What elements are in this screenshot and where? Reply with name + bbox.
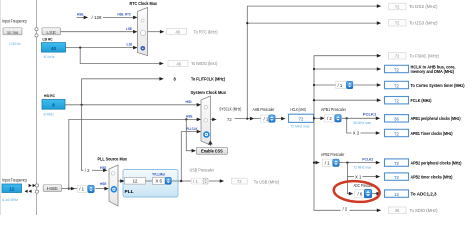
svg-text:36: 36 bbox=[395, 208, 400, 213]
svg-text:8 MHz: 8 MHz bbox=[44, 112, 55, 116]
wire SYSCLK to I2S2 bbox=[247, 6, 379, 119]
svg-text:40: 40 bbox=[176, 30, 181, 35]
svg-text:Input Frequency: Input Frequency bbox=[2, 178, 28, 183]
wire HSI to system mux bbox=[65, 104, 200, 106]
value box To RTC 40 bbox=[167, 28, 187, 34]
pin OSC_IN bbox=[35, 184, 38, 187]
radio PLLCLK (selected) bbox=[203, 131, 210, 138]
svg-text:To I2S2 (MHz): To I2S2 (MHz) bbox=[409, 4, 438, 9]
svg-text:/ 1: / 1 bbox=[193, 179, 198, 184]
svg-text:0-1000 kHz: 0-1000 kHz bbox=[9, 42, 21, 46]
svg-text:32.768: 32.768 bbox=[7, 30, 19, 35]
USB prescaler /1 bbox=[181, 180, 191, 182]
value box APB1 timer 72 bbox=[385, 129, 409, 136]
svg-text:72: 72 bbox=[394, 83, 399, 88]
svg-text:APB1 peripheral clocks (MHz): APB1 peripheral clocks (MHz) bbox=[411, 116, 461, 121]
wire PLLCLK to system mux bbox=[181, 132, 199, 181]
svg-text:/ 128: / 128 bbox=[92, 15, 103, 20]
wire X2 out bbox=[361, 132, 379, 134]
svg-text:72 MHz max: 72 MHz max bbox=[290, 125, 310, 129]
LSE input frequency field 32.768 bbox=[3, 28, 22, 35]
svg-text:72: 72 bbox=[395, 54, 400, 59]
svg-text:PLL: PLL bbox=[125, 189, 134, 195]
wire APB1 prescaler out bbox=[342, 117, 378, 119]
svg-text:36 MHz max: 36 MHz max bbox=[353, 121, 371, 125]
svg-text:/ 1: / 1 bbox=[79, 186, 84, 191]
svg-text:LSE: LSE bbox=[126, 26, 132, 31]
svg-text:HSE: HSE bbox=[100, 181, 107, 186]
svg-text:To Cortex System timer (MHz): To Cortex System timer (MHz) bbox=[411, 83, 465, 88]
svg-text:To SDIO (MHz): To SDIO (MHz) bbox=[410, 208, 439, 213]
wire PCLK2 down branch bbox=[347, 163, 350, 194]
LSE oscillator box bbox=[42, 28, 61, 35]
wire LSI to IWDG bbox=[80, 48, 161, 64]
button Enable CSS bbox=[196, 147, 227, 154]
svg-text:PCLK2: PCLK2 bbox=[362, 156, 374, 161]
wire prediv to PLL mux bbox=[96, 188, 107, 190]
svg-text:72: 72 bbox=[227, 117, 232, 122]
value box To SDIO 36 bbox=[389, 207, 407, 214]
pin OSC_OUT arrows bbox=[25, 190, 28, 193]
wire Cortex prescaler out bbox=[354, 84, 380, 86]
svg-text:LSE: LSE bbox=[46, 30, 56, 36]
svg-text:X 6: X 6 bbox=[155, 179, 162, 184]
svg-text:12: 12 bbox=[394, 192, 399, 197]
svg-text:RTC Clock Mux: RTC Clock Mux bbox=[130, 1, 158, 6]
pin OSC_OUT bbox=[35, 190, 38, 193]
svg-text:PLL Source Mux: PLL Source Mux bbox=[98, 157, 128, 162]
annotation red circle around ADC prescaler bbox=[333, 180, 380, 204]
svg-text:72: 72 bbox=[395, 21, 400, 26]
radio LSI (selected) bbox=[141, 46, 146, 51]
svg-text:/ 1: / 1 bbox=[264, 116, 269, 121]
wire HCLK distribution vertical bbox=[314, 56, 379, 211]
svg-text:AHB Prescaler: AHB Prescaler bbox=[253, 107, 275, 112]
wire HCLK to Cortex prescaler bbox=[314, 84, 336, 86]
system clock mux bbox=[201, 96, 210, 145]
svg-text:HSE: HSE bbox=[186, 114, 193, 119]
radio HSE_RTC (unselected) bbox=[141, 19, 144, 22]
PLL block bbox=[123, 170, 178, 198]
Cortex prescaler /1 bbox=[336, 81, 346, 88]
svg-text:APB1 Prescaler: APB1 Prescaler bbox=[321, 107, 346, 112]
wire CSS dashed arrow to mux bbox=[210, 145, 213, 149]
pin OSC_IN arrows bbox=[29, 184, 32, 187]
node PCLK1 junction bbox=[346, 117, 348, 119]
svg-text:LSI RC: LSI RC bbox=[43, 37, 53, 42]
node HSE-CSS junction bbox=[185, 118, 187, 120]
wire PCLK1 to APB1 timer multiplier bbox=[347, 118, 352, 133]
wire HCLK to FCLK row bbox=[314, 99, 379, 101]
svg-text:APB1 Timer clocks (MHz): APB1 Timer clocks (MHz) bbox=[411, 131, 453, 136]
svg-text:PLLCLK: PLLCLK bbox=[187, 126, 198, 131]
pin OSC32_IN bbox=[35, 28, 38, 31]
panel border bbox=[0, 0, 2, 215]
node HCLK junction bbox=[313, 117, 315, 119]
wire PLL out bbox=[172, 180, 181, 182]
svg-text:HSI: HSI bbox=[100, 165, 106, 170]
wire USB prescaler out bbox=[209, 180, 222, 182]
RTC clock mux bbox=[137, 8, 147, 56]
prediv /1 bbox=[77, 185, 87, 192]
svg-text:12: 12 bbox=[133, 179, 138, 184]
svg-text:72: 72 bbox=[299, 117, 304, 122]
svg-text:72: 72 bbox=[394, 67, 399, 72]
radio HSE (unselected) bbox=[204, 119, 207, 122]
wire RTC mux output bbox=[148, 31, 162, 33]
radio HSE (selected) bbox=[111, 186, 118, 193]
USB spinner (disabled) bbox=[203, 178, 208, 184]
wire 12 to PLLMul bbox=[146, 180, 153, 182]
wire HCLK out bbox=[314, 117, 324, 119]
value box To IWDG 40 bbox=[168, 60, 188, 66]
svg-text:To RTC (kHz): To RTC (kHz) bbox=[194, 29, 219, 34]
wire HCLK to APB2 prescaler bbox=[314, 162, 318, 164]
svg-text:40 kHz: 40 kHz bbox=[44, 55, 55, 59]
value box To USB 72 bbox=[232, 178, 248, 184]
node HSE junction at box bbox=[68, 188, 70, 190]
node HSI junction bbox=[81, 104, 83, 106]
LSI RC oscillator box 40 bbox=[42, 43, 66, 53]
value box HCLK AHB 72 bbox=[385, 65, 409, 72]
svg-text:Enable CSS: Enable CSS bbox=[201, 149, 223, 154]
svg-text:/ 1: / 1 bbox=[338, 83, 343, 88]
wire LSE to mux bbox=[61, 31, 136, 33]
wire HSE to system mux bbox=[69, 119, 200, 188]
wire PCLK2 to X1 bbox=[347, 176, 354, 178]
node LSI junction bbox=[79, 47, 81, 49]
svg-text:SYSCLK (MHz): SYSCLK (MHz) bbox=[219, 106, 241, 111]
wire HCLK to AHB bus row bbox=[314, 68, 379, 70]
svg-text:HCLK (MHz): HCLK (MHz) bbox=[291, 107, 307, 112]
svg-text:72: 72 bbox=[394, 175, 399, 180]
svg-text:72: 72 bbox=[237, 179, 242, 184]
svg-text:USB Prescaler: USB Prescaler bbox=[190, 168, 215, 173]
svg-text:/ 6: / 6 bbox=[358, 192, 363, 197]
pin OSC32_OUT bbox=[35, 34, 38, 37]
svg-text:HSE: HSE bbox=[77, 11, 84, 16]
svg-text:72: 72 bbox=[394, 99, 399, 104]
wire SYSCLK to I2S3 bbox=[247, 22, 379, 24]
wire ADC prescaler out bbox=[372, 193, 379, 195]
svg-text:40: 40 bbox=[177, 61, 182, 66]
svg-text:FCLK (MHz): FCLK (MHz) bbox=[411, 98, 432, 103]
value box To I2S2 72 bbox=[389, 3, 407, 10]
chip boundary line bbox=[36, 0, 38, 215]
HSI RC oscillator box 8 bbox=[42, 100, 65, 110]
svg-text:/ 2: / 2 bbox=[343, 206, 348, 211]
wire mux to PLL bbox=[118, 180, 122, 182]
svg-text:HSE: HSE bbox=[47, 186, 58, 192]
wire CSS from HSE bbox=[186, 119, 194, 150]
svg-text:/ 1: / 1 bbox=[325, 160, 330, 165]
svg-text:/ 2: / 2 bbox=[85, 168, 90, 173]
svg-text:APB2 Prescaler: APB2 Prescaler bbox=[321, 152, 345, 157]
svg-text:To FSMC (MHz): To FSMC (MHz) bbox=[410, 53, 440, 58]
svg-text:memory and DMA (MHz): memory and DMA (MHz) bbox=[411, 69, 455, 74]
wire HSE to prediv bbox=[62, 188, 73, 190]
svg-text:HSE_RTC: HSE_RTC bbox=[118, 11, 132, 16]
wire HSI to /2 bbox=[82, 105, 84, 171]
wire APB2 prescaler out bbox=[340, 162, 379, 164]
svg-text:36: 36 bbox=[394, 117, 399, 122]
value box Cortex timer 72 bbox=[385, 81, 409, 88]
PLL source mux bbox=[109, 165, 118, 206]
ADC prescaler /6 bbox=[355, 190, 364, 198]
svg-text:/ 2: / 2 bbox=[327, 116, 332, 121]
wire into ADC prescaler bbox=[349, 192, 353, 196]
wire SYSCLK to AHB prescaler bbox=[235, 118, 253, 120]
AHB prescaler /1 bbox=[261, 115, 269, 122]
svg-text:*PLLMul: *PLLMul bbox=[152, 172, 165, 177]
svg-text:LSI: LSI bbox=[127, 41, 133, 46]
wire AHB to HCLK box bbox=[276, 118, 284, 120]
node PLLCLK junction bbox=[180, 180, 182, 182]
wire HCLK/2 to SDIO bbox=[314, 209, 341, 211]
wire SYSCLK out of mux bbox=[210, 118, 214, 120]
svg-text:APB2 peripheral clocks (MHz): APB2 peripheral clocks (MHz) bbox=[411, 161, 462, 166]
PLLMul combo X6 bbox=[153, 177, 166, 184]
svg-text:To ADC1,2,3: To ADC1,2,3 bbox=[411, 192, 438, 197]
radio HSI (unselected) bbox=[204, 106, 207, 109]
svg-text:PCLK1: PCLK1 bbox=[363, 112, 377, 117]
wire HSI to FLITFCLK bbox=[82, 79, 162, 105]
wire HSE stub arrow bbox=[77, 16, 86, 18]
wire /2 to PLL mux bbox=[92, 169, 105, 171]
svg-text:72: 72 bbox=[394, 131, 399, 136]
svg-text:HSI RC: HSI RC bbox=[44, 93, 55, 98]
svg-text:4-16 MHz: 4-16 MHz bbox=[2, 198, 18, 202]
svg-text:72: 72 bbox=[395, 4, 400, 9]
HSE input frequency field 12 bbox=[2, 184, 22, 193]
wire X1 out bbox=[363, 176, 379, 178]
node I2S3 junction bbox=[246, 22, 248, 24]
svg-text:Input Frequency: Input Frequency bbox=[2, 19, 28, 24]
radio LSE (unselected) bbox=[140, 30, 145, 35]
value box To FSMC 72 bbox=[389, 52, 407, 59]
wire LSI to mux bbox=[66, 47, 136, 49]
APB2 prescaler /1 bbox=[322, 159, 332, 166]
value box To I2S3 72 bbox=[389, 19, 407, 26]
svg-text:To USB (MHz): To USB (MHz) bbox=[254, 179, 280, 184]
svg-text:40: 40 bbox=[51, 46, 57, 51]
value box APB2 timer 72 bbox=[385, 173, 409, 180]
HSE oscillator box bbox=[43, 185, 61, 192]
svg-text:To FLITFCLK (MHz): To FLITFCLK (MHz) bbox=[191, 77, 225, 82]
svg-text:72: 72 bbox=[394, 161, 399, 166]
svg-text:To IWDG (kHz): To IWDG (kHz) bbox=[191, 61, 218, 66]
value box APB2 peripheral 72 bbox=[385, 159, 409, 166]
svg-text:To I2S3 (MHz): To I2S3 (MHz) bbox=[409, 20, 438, 25]
svg-text:X 1: X 1 bbox=[355, 174, 362, 179]
value box To ADC 12 bbox=[385, 190, 409, 197]
svg-text:72 MHz max: 72 MHz max bbox=[353, 166, 371, 170]
svg-text:APB2 timer clocks (MHz): APB2 timer clocks (MHz) bbox=[411, 175, 453, 180]
value box HCLK 72 bbox=[289, 114, 314, 122]
svg-text:HSI: HSI bbox=[186, 99, 192, 104]
APB1 prescaler /2 bbox=[324, 115, 334, 122]
svg-text:X 2: X 2 bbox=[353, 131, 360, 136]
value box FCLK 72 bbox=[385, 97, 409, 104]
value box APB1 peripheral 36 bbox=[385, 115, 409, 122]
svg-text:System Clock Mux: System Clock Mux bbox=[191, 90, 227, 95]
radio HSI/2 (unselected) bbox=[111, 172, 115, 176]
node I2S branch bbox=[246, 118, 248, 120]
svg-text:12: 12 bbox=[9, 187, 15, 192]
PLL input value 12 bbox=[125, 178, 146, 185]
wire HSE_RTC to mux bbox=[103, 16, 135, 18]
node PCLK2 junction bbox=[346, 162, 348, 164]
